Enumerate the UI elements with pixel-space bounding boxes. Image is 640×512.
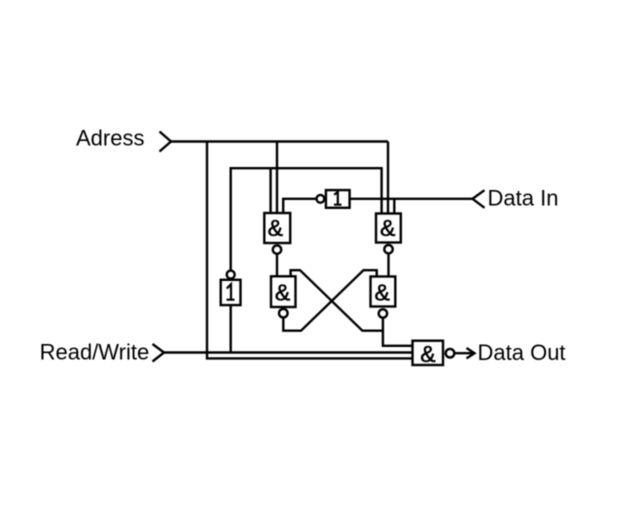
svg-text:Data Out: Data Out [478, 340, 566, 365]
svg-text:&: & [275, 279, 290, 305]
wire Adress end drop to gate G2 (x=388) [387, 142, 389, 214]
nand G1 box [264, 213, 290, 243]
wire Data In tap to G2 (x=394.3) [393, 199, 395, 214]
nand G5 box (output gate) [413, 341, 444, 365]
wire Adress tap to gate G1 (x=277) [276, 142, 278, 214]
wire Read/Write rail [164, 351, 413, 353]
wire Adress rail [171, 140, 388, 142]
wire G1 output to latch G3 [276, 254, 278, 276]
wire G4 output cross-couple to G3 input [291, 270, 383, 331]
output arrow Data Out [454, 348, 474, 358]
inverter N2 bubble [317, 195, 325, 203]
svg-text:Read/Write: Read/Write [40, 340, 150, 365]
wire NOT-ReadWrite rail (from N1 bubble up, across, down to G2) [231, 168, 382, 270]
nand G2 box [376, 214, 401, 243]
nand G3 output bubble [279, 309, 288, 318]
inverter N1 box [221, 280, 241, 305]
svg-text:Data In: Data In [488, 186, 559, 211]
inverter N1 value 1 [227, 284, 235, 300]
nand G4 box (latch right) [371, 277, 396, 307]
input arrow Data In [473, 190, 485, 208]
nand G4 output bubble [379, 309, 387, 317]
wire NOT-ReadWrite tap to G1 (x=270.6) [269, 168, 271, 213]
inverter N2 value 1 [334, 192, 342, 205]
wire N2 output to G1 [283, 199, 316, 213]
inverter N2 box [326, 190, 350, 208]
wire N1 input stem from Read/Write line [229, 305, 231, 352]
wire Data In rail [350, 198, 473, 200]
svg-text:&: & [380, 215, 395, 241]
wire Adress tap to output gate (x=207 down, then right) [207, 142, 413, 359]
wire G3 output cross-couple to G4 input [283, 270, 376, 331]
nand G5 output bubble [446, 349, 455, 358]
inverter N1 bubble [227, 271, 235, 279]
wire G2 output to latch G4 [387, 253, 389, 276]
input arrow Read/Write [153, 344, 165, 362]
svg-text:&: & [268, 215, 283, 241]
input arrow Adress [160, 132, 172, 152]
svg-text:Adress: Adress [76, 125, 144, 150]
nand G3 box (latch left) [271, 276, 296, 307]
nand G2 output bubble [384, 245, 392, 253]
svg-text:&: & [375, 279, 390, 305]
wire G4 output down to output gate G5 [383, 318, 413, 346]
nand G1 output bubble [273, 245, 281, 253]
svg-text:&: & [420, 341, 435, 367]
